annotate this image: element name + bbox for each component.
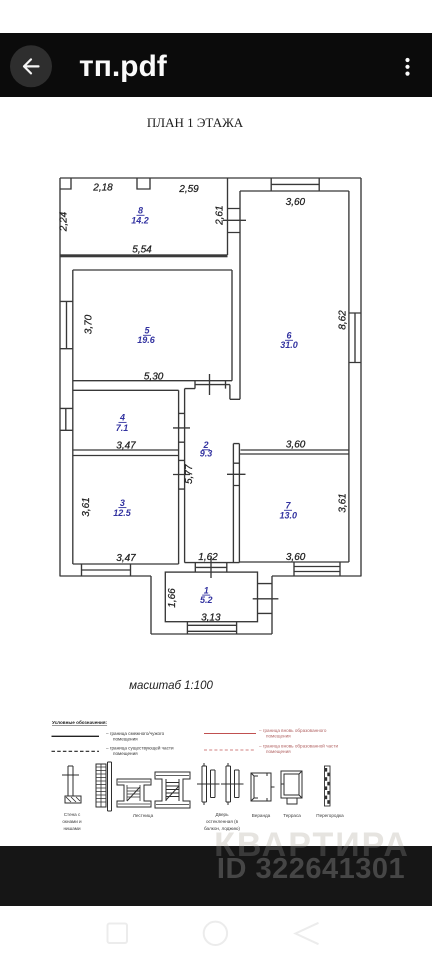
inner face left rooms: [72, 270, 74, 564]
room 1 box: [165, 572, 257, 622]
glyph stairs landing 1: [117, 779, 151, 807]
porch outline: [151, 576, 272, 634]
glyph veranda: [251, 773, 275, 801]
svg-text:1: 1: [204, 585, 209, 595]
svg-text:Лестница: Лестница: [133, 813, 154, 818]
svg-text:остекленная (в: остекленная (в: [206, 819, 239, 824]
wall outer bottom-left: [60, 575, 152, 577]
wall room2-room7: [233, 444, 239, 563]
svg-text:– граница смежного/чужого: – граница смежного/чужого: [106, 731, 165, 736]
svg-text:Дверь: Дверь: [215, 812, 229, 817]
svg-text:3,61: 3,61: [81, 497, 92, 516]
svg-text:– граница существующей части: – граница существующей части: [106, 745, 174, 751]
svg-text:6: 6: [286, 331, 292, 341]
door room2-room7: [227, 463, 246, 485]
svg-text:ID 322641301: ID 322641301: [217, 853, 405, 885]
back button: [10, 45, 52, 87]
svg-text:3,60: 3,60: [286, 552, 306, 563]
wall outer right: [360, 178, 362, 576]
svg-text:– граница вновь образованного: – граница вновь образованного: [259, 728, 327, 733]
svg-text:13.0: 13.0: [280, 510, 298, 520]
legend line existing: [52, 735, 100, 737]
door room2-room1: [195, 558, 227, 579]
svg-text:ПЛАН 1 ЭТАЖА: ПЛАН 1 ЭТАЖА: [147, 115, 244, 130]
glyph partition: [325, 766, 331, 806]
svg-text:2,59: 2,59: [178, 184, 199, 195]
wall outer bottom-right: [272, 575, 362, 577]
menu dots: [405, 58, 409, 76]
svg-text:помещения: помещения: [266, 749, 291, 754]
wall outer top: [60, 177, 361, 179]
svg-text:Перегородка: Перегородка: [316, 813, 344, 818]
nav home: [204, 922, 227, 945]
door room5-room2: [195, 374, 230, 395]
svg-text:5: 5: [144, 326, 150, 336]
inner face right rooms43: [178, 390, 180, 564]
room 6 walls: [240, 191, 349, 562]
svg-text:3,47: 3,47: [116, 440, 136, 451]
room 4 box: [73, 390, 179, 450]
door room4-room2: [173, 413, 190, 442]
glyph stairs flight: [96, 762, 112, 811]
room 7 box: [239, 454, 349, 562]
svg-text:7: 7: [285, 501, 291, 511]
svg-text:– граница вновь образованной ч: – граница вновь образованной части: [259, 742, 338, 748]
wall room8 right: [227, 178, 229, 255]
glyph stairs landing 2: [155, 772, 190, 808]
window room5 left: [60, 301, 73, 348]
svg-text:3,70: 3,70: [84, 314, 95, 334]
black band bottom: [0, 846, 432, 906]
svg-text:14.2: 14.2: [131, 216, 149, 226]
wall room8 bottom thick: [60, 254, 228, 257]
svg-text:5.2: 5.2: [200, 595, 213, 605]
door room1 right entrance: [253, 584, 279, 614]
svg-text:помещения: помещения: [113, 737, 138, 742]
svg-text:3,60: 3,60: [286, 440, 306, 451]
svg-text:тп.pdf: тп.pdf: [79, 50, 168, 83]
svg-text:2,24: 2,24: [59, 211, 70, 232]
room 3 box: [73, 456, 179, 565]
glyph glazed door 1: [197, 763, 220, 805]
app bar: [0, 33, 432, 97]
legend line new red: [204, 733, 256, 735]
glyph glazed door 2: [221, 763, 244, 805]
svg-text:7.1: 7.1: [116, 423, 129, 433]
wall cap below room6 left: [230, 385, 240, 400]
svg-text:5,77: 5,77: [184, 464, 195, 484]
glyph terrace: [281, 771, 302, 804]
pier notch left: [60, 178, 71, 189]
room 2 corridor walls: [185, 389, 240, 563]
window room7 bottom: [294, 562, 340, 576]
window room6 right: [349, 313, 361, 363]
svg-text:масштаб 1:100: масштаб 1:100: [129, 680, 213, 692]
svg-text:2,18: 2,18: [92, 183, 113, 194]
svg-text:8: 8: [138, 206, 143, 216]
svg-text:5,30: 5,30: [144, 372, 164, 383]
room 5 box: [73, 270, 232, 381]
svg-text:3,60: 3,60: [286, 197, 306, 208]
svg-text:3,13: 3,13: [201, 612, 221, 623]
svg-text:помещения: помещения: [266, 734, 291, 739]
svg-text:Терраса: Терраса: [283, 813, 301, 818]
svg-text:1,62: 1,62: [198, 552, 218, 563]
pier notch middle: [137, 178, 150, 189]
svg-text:12.5: 12.5: [113, 508, 132, 518]
window room6 top: [271, 178, 319, 191]
svg-text:Веранда: Веранда: [252, 813, 271, 818]
svg-text:31.0: 31.0: [280, 340, 298, 350]
svg-text:3: 3: [120, 498, 125, 508]
svg-text:окнами и: окнами и: [62, 819, 82, 824]
svg-text:8,62: 8,62: [338, 310, 349, 330]
svg-text:19.6: 19.6: [137, 335, 156, 345]
nav recents: [108, 924, 128, 944]
glyph wall: [62, 766, 81, 803]
door room8-room6: [223, 209, 246, 233]
nav back: [296, 923, 319, 944]
watermark word: [214, 826, 410, 864]
svg-text:Стена с: Стена с: [64, 812, 81, 817]
svg-text:Условные обозначения:: Условные обозначения:: [52, 719, 108, 725]
svg-text:3,47: 3,47: [116, 553, 136, 564]
svg-text:9.3: 9.3: [200, 449, 213, 459]
svg-text:4: 4: [119, 413, 125, 423]
legend line new-part red dashed: [204, 749, 256, 751]
window room1 bottom: [187, 622, 236, 634]
svg-text:5,54: 5,54: [132, 245, 152, 256]
svg-text:2,61: 2,61: [215, 205, 226, 225]
svg-text:1,66: 1,66: [167, 588, 178, 608]
window room3 bottom: [82, 564, 131, 576]
window room4 left: [60, 408, 73, 430]
door room3-room2: [173, 460, 190, 489]
svg-text:нишами: нишами: [63, 826, 81, 831]
svg-text:3,61: 3,61: [338, 493, 349, 512]
wall outer left: [59, 178, 61, 576]
legend line existing-part dashed: [52, 750, 100, 752]
svg-text:помещения: помещения: [113, 751, 138, 756]
